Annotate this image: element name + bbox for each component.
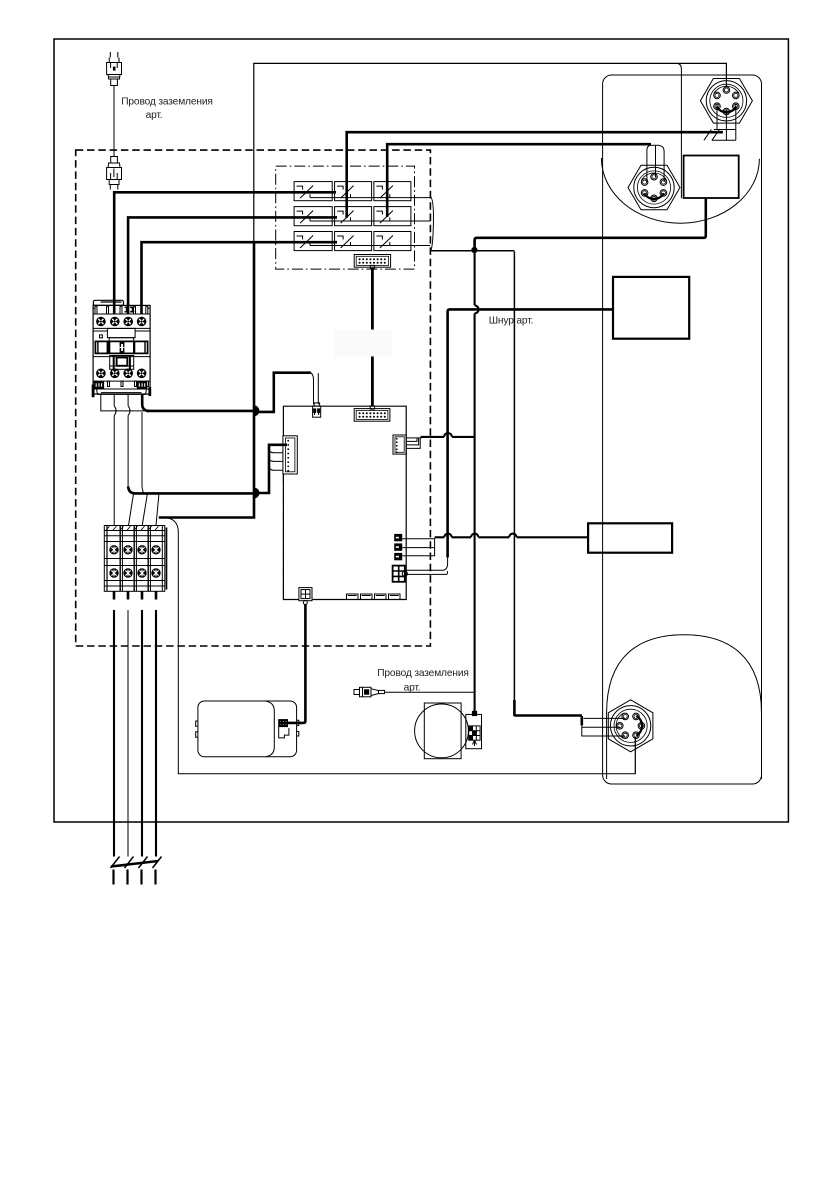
fan unit rounded enclosure xyxy=(603,75,762,784)
ribbon cable relay to PCB xyxy=(371,268,374,406)
wire W2: relay to mid connector XS2 xyxy=(387,144,651,217)
PCB control board outline xyxy=(283,406,406,599)
ground lug wire to motor feed xyxy=(385,691,474,693)
K1 thick wire to box D with hops xyxy=(435,536,588,538)
J3 fan wires to thick feed xyxy=(406,438,421,449)
relay unit K dash-dot boundary xyxy=(276,166,415,269)
svg-text:Шнур арт.: Шнур арт. xyxy=(489,316,534,327)
PCB right connector J3 xyxy=(393,435,406,454)
wire: contactor A1 bottom to bus (thin left part) xyxy=(101,394,147,411)
connector XS3 (bottom 6-pin, rotated) xyxy=(608,700,653,752)
motor connector xyxy=(466,714,482,748)
ground return wire down right across bottom xyxy=(164,518,635,774)
contactor KM1 body xyxy=(93,300,150,394)
fan scroll arc upper xyxy=(601,158,759,223)
contactor lower mechanism xyxy=(93,356,150,370)
contactor black block row xyxy=(95,341,147,353)
connector XS2 (mid right 6-pin) xyxy=(628,165,680,210)
relay contact boxes 3x3 xyxy=(294,182,411,251)
junction bump B1 xyxy=(254,405,259,416)
contactor screws top row xyxy=(97,317,106,326)
box D (small box right) xyxy=(588,523,672,552)
terminal block bottom stubs xyxy=(114,591,156,599)
slanted feed to pole2 xyxy=(129,494,134,525)
XS3 wire fan from feed xyxy=(582,716,625,736)
wire: bus tap down to terminal block pole3 xyxy=(142,412,147,526)
junction dot D1 xyxy=(471,247,477,253)
ground lug bottom xyxy=(354,687,385,697)
cord wires from K2 to cord vertical xyxy=(405,557,448,574)
PCB connector K2 grid xyxy=(393,566,408,582)
wire: B2 branch to PCB left connector bundle xyxy=(254,445,287,493)
vertical wire 474.6 from box B to motor connector xyxy=(474,239,476,714)
faint watermark block xyxy=(335,330,393,357)
slanted feed to pole4 xyxy=(156,494,159,525)
XS1 bottom pin wires xyxy=(704,105,736,141)
ground faston connector X1 lower half xyxy=(107,150,122,189)
contactor mid dividers and label xyxy=(93,328,150,341)
PCB connector K1 (dark) xyxy=(394,534,402,560)
svg-text:Провод заземления: Провод заземления xyxy=(121,97,213,108)
wire: contactor bottom t2 down to terminal block pole1 with hop xyxy=(113,394,115,525)
J3 thick wire with hop to vertical 474.6 xyxy=(421,436,475,438)
wire: fillet corner into fan unit lead xyxy=(676,63,681,198)
box B (capacitor) xyxy=(684,156,739,199)
svg-text:Провод заземления: Провод заземления xyxy=(377,668,469,679)
PCB J2 fan wires xyxy=(269,445,283,471)
box C (Шнур box) xyxy=(613,277,689,339)
cord (Шнур) thick wire to box C xyxy=(448,309,613,557)
PCB top 2-pin connector xyxy=(313,403,321,417)
PCB bottom power connector xyxy=(299,588,312,605)
contactor bottom strip xyxy=(92,381,151,397)
transformer output connector xyxy=(279,720,289,738)
horizontal thick bus to junction B1 xyxy=(147,410,255,413)
terminal block screws xyxy=(106,526,159,530)
PCB top 16-pin connector xyxy=(354,406,390,421)
ground faston connector X1 upper half xyxy=(107,52,122,150)
motor fan xyxy=(415,703,469,759)
XS3 bottom pin wire xyxy=(634,737,636,774)
thin drops into 2-pin connector xyxy=(311,373,319,405)
relay contact glyphs row1 xyxy=(297,186,431,199)
wire: contactor bottom t3 down to terminal block pole2 with hop xyxy=(127,394,129,487)
hop of 474.6 over cord wire xyxy=(475,305,479,313)
wire: contactor bottom t4 thick into bus xyxy=(142,394,149,411)
XS2 top pin wires xyxy=(647,145,664,182)
thick wire from box B bottom xyxy=(475,198,706,250)
outgoing mains wires xyxy=(114,610,156,857)
wire W1: relay to top connector XS1 xyxy=(347,132,723,218)
svg-text:арт.: арт. xyxy=(146,110,163,121)
wire phase 1: relay row1 to contactor T2 xyxy=(114,192,336,314)
drawing frame border xyxy=(54,39,788,822)
cable bundle brace at cabinet edge xyxy=(430,196,433,250)
PCB left edge dash-dot lower xyxy=(282,474,284,600)
wire: B1 branch to PCB top 2-pin connector xyxy=(254,373,310,412)
wire phase 2: relay row2 to contactor T3 xyxy=(128,217,337,314)
relay 16-pin connector xyxy=(354,255,390,269)
transformer power supply box xyxy=(196,701,299,757)
contactor top terminal strip xyxy=(93,307,150,314)
connector XS1 (top right 6-pin) xyxy=(700,79,752,124)
terminal block XT1 xyxy=(104,526,166,592)
relay contact glyphs row3 xyxy=(297,236,431,249)
wire: thick bus B2 tap from pole2 wire xyxy=(128,487,254,494)
cord wire down to fan connector XS3 xyxy=(514,252,581,716)
cable break slashes xyxy=(111,857,162,885)
contactor screws bottom row xyxy=(97,369,106,378)
wire phase 3: relay row3 to contactor T4 xyxy=(142,242,338,314)
PCB bottom pin tabs xyxy=(347,594,401,600)
cabinet dashed boundary xyxy=(76,150,431,646)
fan feed thick lower part xyxy=(514,700,581,716)
fan dome arc lower xyxy=(607,635,762,779)
wire PCB to transformer xyxy=(288,605,306,723)
bundled wire to junction dot xyxy=(431,250,515,252)
K1 wires merging xyxy=(402,539,434,556)
vertical thick bus x=254 xyxy=(159,242,254,517)
junction bump B2 xyxy=(254,488,259,499)
PCB left connector J2 xyxy=(283,436,297,474)
relay contact glyphs row2 xyxy=(297,211,431,224)
wire: connector XS1 top pin up and across to vertical bus xyxy=(254,63,727,242)
motor feed junction square xyxy=(472,711,477,716)
